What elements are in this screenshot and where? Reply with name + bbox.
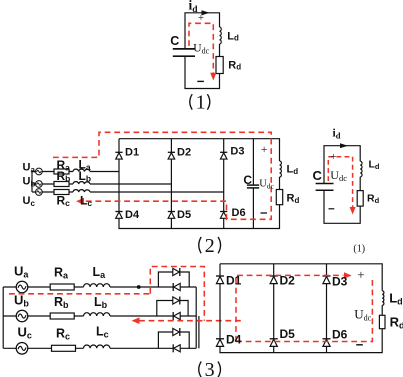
svg-text:C: C	[170, 34, 179, 48]
svg-text:Rd: Rd	[228, 60, 241, 72]
svg-text:D6: D6	[232, 207, 246, 219]
svg-text:C: C	[243, 173, 252, 187]
svg-text:+: +	[198, 13, 204, 24]
svg-text:C: C	[313, 168, 323, 183]
svg-text:Rc: Rc	[57, 194, 71, 209]
svg-text:Ua: Ua	[23, 162, 36, 175]
svg-text:Rd: Rd	[287, 193, 300, 206]
svg-text:Ld: Ld	[287, 164, 299, 177]
svg-text:Ra: Ra	[54, 266, 69, 281]
svg-text:D1: D1	[226, 274, 242, 288]
svg-text:La: La	[93, 265, 107, 280]
svg-text:+: +	[261, 144, 268, 156]
svg-text:+: +	[357, 267, 364, 282]
svg-text:Udc: Udc	[259, 179, 274, 191]
svg-text:Lc: Lc	[96, 325, 109, 340]
svg-text:Udc: Udc	[354, 307, 371, 323]
svg-text:Rc: Rc	[56, 327, 70, 342]
svg-text:Ld: Ld	[369, 159, 380, 172]
svg-text:D6: D6	[332, 328, 348, 342]
svg-text:Uc: Uc	[23, 195, 36, 208]
svg-text:D4: D4	[125, 209, 140, 221]
svg-text:Rd: Rd	[390, 315, 403, 331]
svg-text:Ld: Ld	[227, 31, 239, 43]
svg-text:Uc: Uc	[18, 325, 32, 341]
svg-text:id: id	[333, 128, 341, 141]
svg-text:Rb: Rb	[54, 295, 69, 310]
svg-text:Lb: Lb	[94, 295, 108, 310]
svg-text:Ua: Ua	[14, 264, 29, 280]
svg-text:D5: D5	[177, 209, 191, 221]
svg-text:D2: D2	[280, 274, 296, 288]
svg-text:Ub: Ub	[14, 293, 29, 309]
svg-text:2: 2	[205, 235, 215, 257]
svg-text:(1): (1)	[353, 243, 365, 254]
svg-text:Udc: Udc	[193, 43, 209, 56]
svg-text:D2: D2	[177, 147, 191, 159]
svg-text:D4: D4	[226, 333, 242, 347]
svg-text:3: 3	[205, 359, 215, 377]
svg-text:1: 1	[196, 92, 206, 114]
svg-text:D3: D3	[230, 146, 244, 158]
svg-text:D5: D5	[280, 327, 296, 341]
svg-text:Ub: Ub	[23, 176, 36, 189]
svg-text:Ld: Ld	[389, 291, 402, 307]
svg-text:+: +	[330, 151, 336, 163]
svg-text:Lc: Lc	[80, 193, 92, 208]
svg-text:Udc: Udc	[330, 168, 347, 183]
svg-text:Rd: Rd	[367, 193, 380, 206]
svg-text:D3: D3	[332, 275, 348, 289]
svg-text:D1: D1	[125, 147, 139, 159]
